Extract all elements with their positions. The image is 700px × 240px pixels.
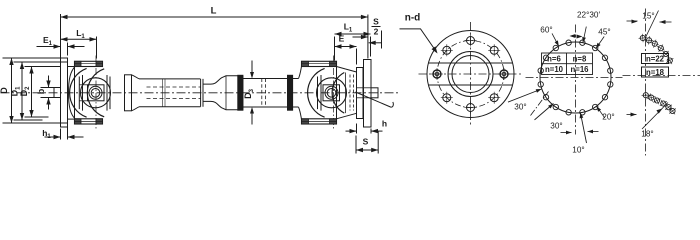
left universal joint: [68, 61, 111, 124]
svg-text:45°: 45°: [598, 28, 610, 37]
svg-text:b: b: [36, 88, 46, 94]
angle 18 callout: [627, 103, 669, 139]
left joint centre line: [95, 56, 97, 130]
dimension b: [36, 76, 61, 110]
svg-text:60°: 60°: [540, 26, 552, 35]
shaft centre line: [1, 92, 399, 94]
weld leader: [356, 92, 394, 107]
left tube weld collar: [125, 75, 201, 111]
dimension D2: [19, 67, 34, 118]
dimension D1: [10, 62, 25, 120]
svg-text:n-d: n-d: [405, 13, 421, 24]
dimension L1 right: [335, 22, 371, 61]
label n-d with leader: [400, 13, 438, 54]
svg-text:10°: 10°: [572, 146, 584, 155]
svg-text:E: E: [339, 34, 345, 44]
slip spline section: [147, 76, 238, 110]
dimension D3: [243, 61, 255, 125]
table n22 n18: [642, 54, 669, 78]
dimension S half: [353, 17, 382, 49]
svg-text:n=8: n=8: [573, 55, 587, 64]
middle tube: [243, 76, 288, 110]
angle labels: [514, 11, 614, 155]
right flange pair: [350, 60, 378, 128]
svg-text:22°30′: 22°30′: [577, 11, 600, 20]
dimension h1: [42, 125, 83, 141]
table n equals: [542, 53, 593, 75]
svg-text:n=16: n=16: [571, 65, 590, 74]
rubber boot clamp band 1: [238, 75, 243, 110]
svg-text:n=10: n=10: [545, 65, 564, 74]
svg-text:18°: 18°: [641, 130, 653, 139]
dimension h: [346, 119, 388, 134]
flange view body: [427, 31, 514, 118]
svg-text:S: S: [373, 17, 379, 27]
view3 centre lines: [623, 9, 700, 156]
flange view centre lines: [419, 22, 523, 126]
svg-text:20°: 20°: [602, 113, 614, 122]
svg-text:L: L: [211, 6, 217, 17]
dimension extension lines for D D1 D2: [3, 58, 61, 123]
svg-text:2: 2: [374, 27, 379, 37]
svg-text:n=6: n=6: [547, 55, 561, 64]
svg-text:n=22: n=22: [646, 55, 665, 64]
left flange plate: [61, 58, 68, 127]
svg-text:h: h: [382, 119, 387, 129]
rubber boot clamp band 2: [288, 75, 293, 110]
dimension E1: [37, 14, 85, 58]
view3 hole rows: [639, 34, 676, 115]
dimension L: [61, 6, 368, 59]
angle chart circle: [526, 25, 623, 135]
right universal joint: [299, 61, 357, 124]
left flange pilot boss: [54, 88, 61, 98]
svg-text:S: S: [363, 137, 369, 147]
angle callout rays: [508, 27, 605, 143]
dimension D: [0, 58, 14, 123]
dimension S: [356, 132, 378, 154]
svg-text:30°: 30°: [550, 122, 562, 131]
right joint centre line: [333, 56, 335, 130]
bolt holes n-d: [431, 35, 510, 114]
tube stub to right joint: [293, 76, 299, 110]
svg-text:15°: 15°: [642, 12, 654, 21]
angle 15 callout: [627, 11, 672, 38]
svg-text:30°: 30°: [514, 103, 526, 112]
dimension E: [335, 34, 357, 65]
dimension L1 left: [61, 28, 97, 59]
svg-text:n=18: n=18: [646, 68, 665, 77]
